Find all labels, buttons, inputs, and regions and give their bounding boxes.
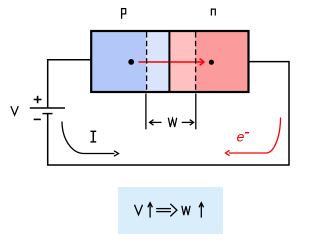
svg-text:e: e: [236, 130, 244, 146]
